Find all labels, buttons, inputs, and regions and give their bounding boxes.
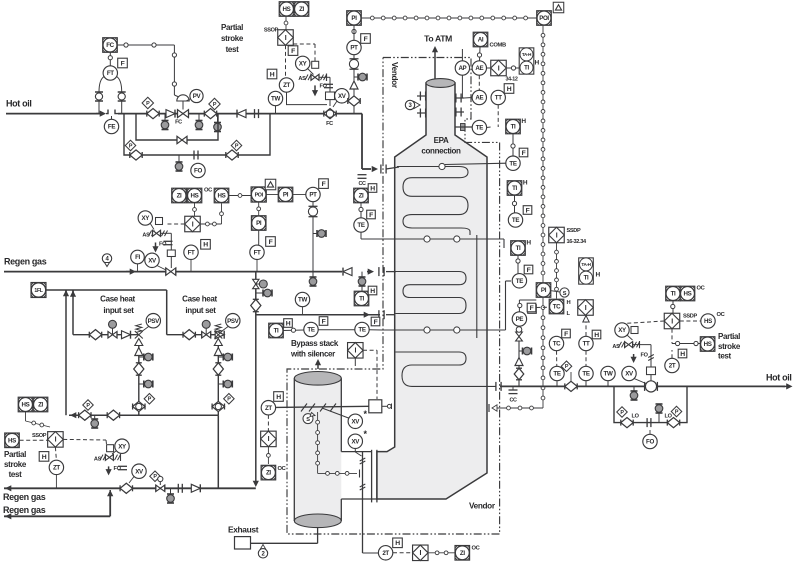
line330 mid: [318, 329, 354, 331]
I-TAH link: [506, 66, 519, 70]
svg-text:FC: FC: [175, 120, 182, 126]
AE bubble 1: [472, 61, 486, 75]
CC tag inlet: [358, 175, 367, 187]
PT regen: [306, 187, 320, 201]
svg-text:TW: TW: [298, 297, 307, 304]
H box ZI mid: [368, 184, 377, 193]
gray stub PT regen: [313, 230, 326, 238]
F box PE: [528, 305, 537, 314]
outer bypass P diamond 1: [125, 140, 136, 151]
svg-text:FI: FI: [135, 254, 140, 261]
svg-text:Bypass stack: Bypass stack: [291, 339, 339, 348]
exhaust box: [235, 537, 251, 549]
damper-ZT dashed: [267, 415, 269, 431]
H box ZT: [267, 69, 277, 79]
TT right: [579, 336, 593, 350]
ZI regen: [172, 188, 187, 203]
stack dlink v: [316, 412, 320, 473]
TI TE pair 3: [511, 240, 533, 288]
svg-text:test: test: [9, 470, 23, 479]
AE bubble 2: [464, 90, 486, 104]
regen valve bl: [120, 483, 132, 493]
TI regen stub: [361, 272, 363, 292]
partial stroke test outlet: [718, 332, 741, 361]
svg-text:ZI: ZI: [266, 470, 271, 477]
svg-text:H: H: [680, 351, 685, 358]
svg-text:AS: AS: [298, 76, 306, 82]
HS regen1 dlink down: [193, 203, 197, 216]
heater serpentine coil: [396, 167, 497, 387]
spectacle blind: [255, 109, 259, 118]
TT arrow dashed: [583, 316, 589, 337]
H box TT right: [592, 330, 601, 339]
bypass LO 1: [632, 414, 640, 420]
rail drain: [91, 415, 99, 428]
HS2-POI dlink: [229, 194, 251, 198]
H box TAH: [535, 60, 540, 67]
inner bypass valve: [177, 136, 187, 144]
OC label regen: [204, 188, 213, 194]
interlock bottom: [413, 545, 429, 561]
svg-text:Hot oil: Hot oil: [6, 99, 32, 109]
stack dlink h: [318, 470, 360, 478]
coil tap row y=239: [361, 236, 504, 248]
FT2 regen: [250, 245, 264, 272]
SSDP interlock: [549, 227, 565, 243]
bypass P 2: [671, 406, 682, 417]
branch valve v: [253, 279, 268, 288]
svg-text:TI: TI: [511, 124, 516, 131]
block valve 1: [147, 109, 159, 119]
svg-text:XV: XV: [148, 257, 157, 264]
delta box regen: [265, 179, 276, 190]
svg-text:H: H: [276, 394, 281, 401]
HS-I link: [284, 17, 288, 30]
FO fail open label: [320, 84, 334, 90]
TC circle: [549, 336, 563, 350]
svg-text:TE: TE: [358, 327, 365, 334]
case heat top line: [46, 289, 167, 291]
AE1-AE2 dashed: [478, 75, 480, 90]
partial stroke test label top: [221, 23, 244, 54]
vendor label left: [390, 62, 399, 89]
bypass stack label: [290, 339, 339, 359]
line330 right: [369, 329, 383, 331]
positioner PV: [186, 89, 203, 102]
ZI square mid: [354, 188, 369, 203]
H box 2T outlet: [678, 349, 687, 358]
svg-text:PI: PI: [541, 287, 547, 294]
TW burner: [295, 292, 309, 314]
svg-text:HS: HS: [704, 341, 712, 348]
neck nozzle left lower: [417, 109, 426, 118]
TE line330 a: [304, 322, 318, 336]
TA-H TI stack: [519, 48, 534, 74]
interlock I regen: [185, 216, 201, 232]
svg-text:F: F: [364, 36, 368, 43]
outlet drain valve: [630, 386, 638, 400]
F box PT: [361, 34, 371, 44]
svg-text:F: F: [369, 212, 373, 219]
TC dashed down: [556, 351, 558, 367]
svg-text:OC: OC: [697, 286, 706, 292]
ZT bl: [49, 460, 63, 488]
svg-text:ZI: ZI: [460, 550, 465, 557]
AP bubble: [455, 49, 469, 75]
svg-text:HS: HS: [218, 193, 226, 200]
check up: [350, 81, 358, 89]
svg-text:HS: HS: [684, 291, 692, 298]
svg-text:HS: HS: [704, 318, 712, 325]
HS bubble top: [279, 2, 294, 17]
svg-text:F: F: [530, 305, 534, 312]
damper diag to XV1: [322, 408, 349, 418]
P diamond outlet: [561, 361, 572, 381]
svg-text:TT: TT: [583, 341, 590, 348]
TW outlet: [601, 366, 615, 386]
branch diamond: [251, 299, 261, 311]
bypass P 1: [617, 407, 628, 418]
thermal oxidizer vessel body: [377, 83, 487, 499]
OC outlet 2: [717, 312, 726, 318]
case heat vert 1: [65, 290, 67, 415]
damper ZT: [261, 401, 275, 415]
svg-text:TE: TE: [516, 278, 523, 285]
XY outlet: [615, 323, 638, 340]
HS regen2: [214, 188, 229, 203]
svg-text:H: H: [526, 240, 531, 247]
sol line outlet: [633, 345, 656, 381]
svg-text:F: F: [564, 331, 568, 338]
fail arrow bl: [106, 466, 112, 475]
duct line: [341, 452, 377, 499]
svg-text:TE: TE: [357, 222, 364, 229]
svg-text:Regen gas: Regen gas: [3, 492, 46, 502]
F box TE a: [319, 317, 328, 326]
svg-text:H: H: [203, 242, 208, 249]
svg-text:H: H: [395, 540, 400, 547]
outlet bypass: [614, 386, 687, 422]
svg-text:2T: 2T: [382, 550, 389, 557]
svg-text:XY: XY: [118, 443, 127, 450]
svg-text:HS: HS: [8, 437, 16, 444]
damper positioner box: [369, 400, 392, 413]
TE outlet 2: [579, 366, 593, 386]
P diamond 1: [142, 97, 153, 108]
svg-text:ZT: ZT: [53, 465, 60, 472]
case heat rail: [69, 412, 218, 418]
outer bypass valve 2: [226, 150, 238, 160]
svg-text:OC: OC: [278, 466, 287, 472]
riser2 to regen: [217, 415, 219, 488]
P diamond bl: [150, 471, 161, 482]
svg-text:SSDP: SSDP: [567, 228, 581, 234]
svg-text:XV: XV: [352, 418, 361, 425]
outer bypass loop: [124, 114, 270, 155]
H L labels TC: [567, 300, 571, 317]
svg-text:ZT: ZT: [283, 82, 290, 89]
AS regen: [142, 231, 154, 239]
svg-text:H: H: [286, 320, 291, 327]
svg-text:To ATM: To ATM: [424, 34, 452, 44]
case heat input set 1: [73, 314, 161, 416]
flow transmitter FT: [103, 66, 117, 80]
svg-text:16-32.34: 16-32.34: [567, 239, 588, 245]
sol to actuator: [161, 233, 172, 250]
TE outlet 1: [550, 366, 564, 386]
inner bypass loop: [136, 114, 218, 140]
2T-I dashed bottom: [393, 552, 412, 554]
svg-text:test: test: [226, 45, 240, 54]
I-XY dashed bl: [63, 439, 106, 445]
ball valve PT regen: [308, 206, 317, 216]
svg-text:1FL: 1FL: [34, 288, 43, 294]
svg-text:FE: FE: [108, 124, 115, 131]
svg-text:stroke: stroke: [4, 460, 27, 469]
TC square: [549, 299, 564, 314]
solenoid valve hotoil: [311, 74, 327, 82]
svg-text:SSDP: SSDP: [683, 314, 697, 320]
34-12 label: [506, 77, 518, 83]
XV2 line: [355, 449, 361, 457]
OC label bottom: [472, 546, 481, 552]
F box PT regen: [319, 179, 329, 189]
bypass LO 2: [665, 414, 673, 420]
neck nozzle left upper: [417, 92, 426, 101]
stack flow arrow: [315, 359, 321, 369]
svg-text:PSV: PSV: [148, 318, 161, 325]
TI TE pair 1: [506, 118, 528, 170]
ZI-TE link: [359, 203, 363, 218]
svg-text:H: H: [594, 332, 599, 339]
F box solenoid: [288, 46, 298, 56]
svg-text:Vendor: Vendor: [469, 502, 496, 511]
POI-PI dlink: [266, 194, 278, 196]
hot oil line to vessel: [362, 114, 399, 174]
svg-text:H: H: [521, 118, 526, 125]
svg-text:POI: POI: [539, 15, 549, 22]
PE diamond: [514, 368, 524, 380]
interlock stack: [348, 343, 364, 359]
TI TE pair 2: [507, 180, 532, 228]
coil tap row y=330: [383, 281, 511, 333]
F box TC ci: [562, 329, 571, 338]
To ATM label: [424, 34, 452, 44]
regen valve: [166, 250, 176, 275]
XV hotoil: [333, 89, 349, 107]
PE stub valve: [519, 347, 532, 355]
S circle mid: [551, 288, 569, 297]
AI-AE link: [477, 47, 481, 61]
rail valve 1: [79, 410, 91, 420]
svg-text:34-12: 34-12: [506, 77, 518, 83]
gray valve TI regen: [358, 277, 366, 286]
TT-TE dashed: [585, 351, 587, 367]
SSOP label: [264, 28, 279, 34]
TI square regen: [354, 291, 369, 306]
check valve after bypass: [237, 110, 246, 118]
SSDP interlock outlet: [664, 313, 680, 329]
regen FT: [184, 245, 198, 272]
svg-text:PE: PE: [516, 316, 524, 323]
svg-text:Hot oil: Hot oil: [766, 373, 792, 383]
vessel stack top ellipse: [426, 79, 455, 88]
PI square top: [347, 11, 362, 41]
ball valve PT: [349, 59, 358, 69]
ZI square bl: [33, 397, 48, 412]
svg-text:F: F: [527, 267, 531, 274]
check bl: [191, 484, 200, 492]
svg-text:H: H: [507, 86, 512, 93]
to ATM vent line: [432, 46, 438, 79]
2T bottom: [363, 546, 393, 560]
svg-text:PT: PT: [350, 45, 358, 52]
H box TAH right: [596, 272, 601, 279]
check valve inlet: [166, 110, 175, 118]
svg-text:F: F: [322, 318, 326, 325]
interlock I hotoil: [278, 30, 294, 46]
S circle damper: [303, 413, 315, 424]
solenoid valve outlet: [625, 341, 640, 348]
vendor boundary: [287, 58, 500, 535]
svg-text:ZI: ZI: [299, 6, 304, 13]
svg-text:TI: TI: [524, 66, 529, 72]
H box regen FT: [201, 240, 211, 250]
svg-text:XY: XY: [618, 327, 627, 334]
AS air supply: [298, 75, 311, 82]
svg-text:PI: PI: [256, 220, 262, 227]
svg-text:Partial: Partial: [4, 450, 26, 459]
FO bl: [114, 466, 128, 472]
svg-text:AE: AE: [475, 65, 483, 72]
svg-text:PV: PV: [193, 93, 202, 100]
svg-text:XV: XV: [135, 468, 144, 475]
F box TE mid: [367, 210, 376, 219]
case heat vert 2: [72, 290, 74, 335]
outlet valve 1: [565, 381, 577, 391]
ESD valve FC: [324, 109, 336, 127]
regen line 1: [4, 485, 256, 491]
damper slashes: [301, 404, 336, 412]
svg-text:TI: TI: [516, 245, 521, 252]
svg-text:TI: TI: [274, 328, 279, 335]
hot oil outlet line: [500, 383, 793, 389]
AS bl: [94, 455, 106, 463]
svg-text:ZT: ZT: [265, 405, 272, 412]
XV bl: [129, 464, 146, 483]
OC label damper: [278, 466, 287, 472]
XV1 stack: [348, 409, 367, 428]
thermowell TW inlet: [268, 91, 282, 113]
svg-text:input set: input set: [103, 306, 134, 315]
svg-text:input set: input set: [185, 306, 216, 315]
svg-text:H: H: [523, 180, 528, 187]
ZI square damper: [261, 465, 276, 480]
bypass union: [647, 418, 651, 427]
XV regen: [145, 253, 166, 270]
I-ZT dashed: [285, 45, 287, 78]
svg-text:OC: OC: [204, 188, 213, 194]
svg-text:TI: TI: [512, 185, 517, 192]
XV2 stack: [348, 429, 367, 448]
svg-text:ZI: ZI: [177, 193, 182, 200]
PE gate valve: [516, 327, 523, 341]
bypass valve 1: [621, 418, 633, 428]
rail valve 2: [107, 410, 119, 420]
svg-text:H: H: [567, 300, 571, 306]
duct flange: [372, 450, 377, 503]
branch stub: [256, 289, 272, 297]
svg-text:PT: PT: [309, 192, 317, 199]
svg-text:Case heat: Case heat: [100, 295, 135, 304]
ilk-ZI dlink: [267, 447, 271, 464]
fail arrow regen: [152, 243, 158, 253]
svg-text:TA-H: TA-H: [581, 262, 591, 267]
svg-text:FT: FT: [254, 249, 261, 256]
svg-text:F: F: [374, 319, 378, 326]
svg-text:F: F: [121, 60, 125, 67]
svg-text:connection: connection: [421, 147, 461, 156]
OC outlet 1: [697, 286, 706, 292]
bypass stub valve: [655, 404, 663, 423]
POI square: [537, 11, 552, 26]
outer bypass P diamond 2: [231, 140, 242, 151]
FI regen: [131, 250, 145, 271]
svg-text:H: H: [596, 272, 601, 279]
neck nozzle right upper: [455, 94, 464, 103]
damper line: [276, 406, 369, 407]
solenoid valve bl: [105, 454, 120, 461]
svg-text:Regen gas: Regen gas: [4, 257, 47, 267]
svg-text:XV: XV: [352, 438, 361, 445]
HS regen1: [187, 188, 202, 203]
PI regen: [278, 187, 293, 202]
H box 2T bottom: [393, 538, 403, 548]
TE line330 b: [355, 322, 369, 336]
svg-text:H: H: [370, 185, 375, 192]
svg-text:F: F: [322, 181, 326, 188]
svg-text:Partial: Partial: [718, 332, 740, 341]
TT dashed down: [497, 105, 499, 127]
svg-text:TW: TW: [604, 371, 613, 378]
PI2 regen: [251, 216, 266, 231]
svg-text:F: F: [522, 150, 526, 157]
FO regen: [159, 241, 173, 247]
svg-text:AP: AP: [458, 65, 466, 72]
drain valve c: [214, 114, 222, 132]
SSDP label outlet: [683, 314, 697, 320]
AE1-I dashed: [487, 67, 492, 69]
svg-text:FC: FC: [326, 121, 333, 127]
case heat label 1: [100, 295, 135, 316]
2T outlet: [665, 358, 679, 372]
svg-text:CC: CC: [509, 398, 517, 404]
svg-text:HS: HS: [191, 193, 199, 200]
solenoid XY bl: [107, 439, 130, 454]
PI square mid: [536, 283, 551, 298]
svg-text:POI: POI: [255, 193, 264, 199]
svg-text:COMB: COMB: [490, 43, 506, 49]
I-solenoid dashed: [293, 44, 315, 61]
svg-text:Exhaust: Exhaust: [228, 525, 259, 535]
solenoid XY hotoil: [296, 56, 319, 74]
drain valve b: [195, 114, 203, 130]
svg-text:PI: PI: [283, 192, 289, 199]
stack exhaust vert: [360, 452, 366, 553]
svg-text:H: H: [42, 454, 47, 461]
PI-POI data link: [361, 16, 536, 20]
AP to nozzle: [462, 75, 464, 98]
